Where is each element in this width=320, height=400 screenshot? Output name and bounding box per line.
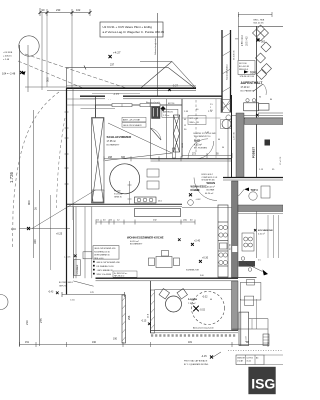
stair small ticked box [263, 334, 269, 346]
wedge tip box [173, 148, 176, 158]
bad door diagonal [151, 128, 162, 140]
svg-text:44.20 m²: 44.20 m² [205, 192, 214, 195]
shaft crossed rect [174, 115, 180, 152]
note box with TOP arrow [238, 61, 257, 75]
svg-text:( -0.15: ( -0.15 [64, 257, 71, 259]
interior vertical wall x95.5 [95, 105, 97, 118]
dim line y228.5 [20, 228, 71, 230]
svg-text:-0.02: -0.02 [200, 309, 206, 312]
svg-text:EST 56: EST 56 [168, 103, 174, 105]
white gap in party wall [232, 246, 237, 252]
svg-text:BRÜ + HUB: BRÜ + HUB [254, 19, 265, 22]
svg-text:2.5: 2.5 [210, 104, 213, 106]
bad south wall [151, 158, 232, 160]
svg-text:90: 90 [259, 97, 261, 99]
marker +0.27 [168, 84, 178, 92]
roof right slope [168, 67, 196, 89]
abstell box [162, 109, 178, 117]
hob circles upper [219, 225, 228, 237]
sideboard long box [135, 209, 181, 217]
schlafzimmer boxed notes [122, 117, 146, 127]
marker 362 [257, 39, 266, 44]
top dimension tick strokes [39, 11, 92, 14]
neighbor dark table [239, 261, 256, 267]
svg-text:BY 1:1 QUADRATE IN RING: BY 1:1 QUADRATE IN RING [184, 363, 209, 366]
hatched wall top right [238, 205, 283, 212]
svg-text:-0.43: -0.43 [48, 292, 54, 294]
dashed roof diagonal 1 [25, 54, 126, 88]
shower square [221, 100, 231, 113]
svg-text:KÜCHE: KÜCHE [191, 189, 200, 192]
label WOHN top3 [191, 186, 214, 196]
svg-text:80: 80 [270, 99, 272, 101]
svg-text:1.47 / 90: 1.47 / 90 [234, 131, 236, 140]
svg-text:BO+GIO 85: BO+GIO 85 [239, 66, 249, 68]
left dim vertical x50.7 [50, 195, 52, 270]
bad door arc [196, 141, 214, 159]
left dim vertical x19.5 [19, 45, 21, 346]
podest top thin line [232, 115, 284, 117]
inner top line [81, 108, 116, 110]
diamond 1 large [253, 25, 269, 41]
svg-text:17 x 17.6: 17 x 17.6 [280, 156, 282, 165]
survey circle top-left [19, 36, 39, 56]
svg-text:237: 237 [110, 64, 115, 67]
convector box with circles [135, 197, 163, 203]
marker -1.15 [108, 92, 119, 100]
diamond 2 [261, 42, 271, 52]
stair upper boxes [240, 283, 261, 301]
svg-text:C 16: C 16 [70, 300, 75, 302]
marker near podest [256, 114, 259, 117]
svg-text:306: 306 [121, 156, 126, 159]
svg-text:-4.15: -4.15 [201, 355, 207, 358]
arrow leader [246, 264, 263, 272]
svg-text:ABSTELLR.: ABSTELLR. [163, 111, 174, 114]
stair tall box [239, 312, 249, 345]
hob circles lower [219, 253, 228, 265]
neighbor east line [267, 215, 269, 258]
svg-text:BO.PAR: BO.PAR [207, 189, 215, 192]
label WOHN small [207, 181, 216, 191]
svg-text:PROTOTAL CAP BOKAL M: PROTOTAL CAP BOKAL M [184, 360, 208, 363]
top dimension numbers [42, 8, 81, 12]
title note box [100, 22, 164, 37]
svg-text:-0.27: -0.27 [172, 84, 178, 88]
room label AUFENTHALT [241, 81, 263, 92]
neighbor hob [244, 237, 253, 247]
step line below top wall [92, 93, 140, 95]
svg-text:GELS OW WOHNZI-U30: GELS OW WOHNZI-U30 [97, 262, 121, 264]
window rect 2 [140, 104, 160, 107]
svg-text:4.10 m²: 4.10 m² [258, 233, 265, 236]
terrace strip lines top-left of rooms [67, 98, 96, 100]
svg-text:2.5: 2.5 [258, 260, 261, 262]
svg-text:60 / 90: 60 / 90 [229, 243, 231, 250]
svg-text:14/44: 14/44 [182, 142, 184, 148]
dashed partition [195, 100, 197, 152]
svg-text:GELS OW SCHLAFZI: GELS OW SCHLAFZI [123, 124, 142, 127]
markers in wohn room [191, 240, 209, 263]
marker -0.48 [11, 227, 63, 236]
wedge line upper [108, 123, 172, 153]
loggia table circle [166, 296, 182, 312]
room label SCHLAFZIMMER [107, 135, 133, 147]
loggia top edge [155, 289, 233, 291]
svg-text:500: 500 [46, 77, 50, 82]
svg-text:104 = -2.48: 104 = -2.48 [2, 72, 16, 76]
svg-text:STB-DE UK 2.60: STB-DE UK 2.60 [240, 76, 254, 78]
hatched party wall vertical [232, 181, 239, 278]
svg-text:KS DIHEIB-CG 30: KS DIHEIB-CG 30 [94, 251, 109, 253]
interior wall band north of bad [80, 95, 222, 97]
room label WOHN-ESSZIMMER-KUECHE [127, 235, 164, 245]
loggia chair 2 rotated [177, 289, 187, 299]
svg-text:44.20 m²: 44.20 m² [130, 240, 139, 243]
wfl note box [113, 271, 137, 278]
svg-text:WM + TR: WM + TR [190, 122, 200, 124]
svg-text:A : WFL 102 m²: A : WFL 102 m² [114, 272, 127, 275]
svg-text:17.20 m²: 17.20 m² [241, 86, 250, 89]
scatter dims bottom kitchen [200, 275, 212, 301]
svg-text:275: 275 [39, 318, 43, 323]
svg-text:a.Z Verres.Lag.Cr Wagerber C.: a.Z Verres.Lag.Cr Wagerber C. Punkte 380… [103, 30, 165, 34]
svg-text:NO 1910: NO 1910 [239, 63, 247, 65]
svg-text:U2 PLN: U2 PLN [247, 358, 254, 360]
podest dark top edge [238, 117, 283, 119]
svg-text:-4.02: -4.02 [196, 199, 202, 201]
svg-text:SWL 1.3a FB30: SWL 1.3a FB30 [97, 274, 112, 276]
svg-text:90: 90 [222, 147, 224, 149]
wall schlafzimmer south [67, 203, 183, 205]
svg-text:ABST. +UK LT.STAT: ABST. +UK LT.STAT [123, 119, 141, 122]
bad construction thin lines [215, 99, 217, 159]
thin line below hatched wall [238, 213, 283, 215]
podest inner line [256, 125, 258, 178]
svg-text:208: 208 [108, 156, 113, 159]
black diamond marker [160, 106, 165, 111]
svg-text:RFB +0.00: RFB +0.00 [94, 258, 103, 260]
svg-text:SCHIEBE-TÜR: SCHIEBE-TÜR [186, 269, 199, 272]
dark box in podest room [265, 140, 271, 146]
bottom dim line y344.5 [20, 342, 269, 347]
svg-text:NDL 41 KS: NDL 41 KS [254, 23, 265, 25]
svg-text:1.726: 1.726 [9, 171, 14, 183]
compass star marker [194, 306, 199, 311]
svg-text:TOP 1: TOP 1 [250, 73, 257, 75]
rotated closet box [74, 260, 80, 276]
wall pair hatch ticks [222, 33, 231, 108]
line under table [258, 112, 283, 114]
svg-text:Loggia: Loggia [188, 297, 197, 301]
podest vertical concrete band [236, 113, 244, 177]
level marker 104 [2, 71, 26, 76]
bad west wall [181, 99, 183, 157]
podest horizontal concrete band [245, 118, 284, 125]
svg-text:233: 233 [56, 8, 61, 12]
svg-text:(24): (24) [183, 220, 187, 222]
svg-text:12: 12 [184, 125, 186, 127]
svg-text:+0.25: +0.25 [56, 233, 63, 236]
svg-text:GEWI 35: GEWI 35 [114, 197, 122, 199]
wall below podest [223, 177, 283, 179]
svg-text:46: 46 [210, 299, 212, 301]
svg-text:4.85 m²: 4.85 m² [194, 143, 202, 146]
svg-text:KS DIHEIB-CG 30: KS DIHEIB-CG 30 [97, 266, 115, 268]
svg-text:RFB 405.9: RFB 405.9 [239, 69, 248, 71]
chair circle bottom right wing [249, 192, 257, 200]
left dim vertical x28 [27, 45, 29, 92]
nightstand 2 [147, 181, 159, 189]
loggia east wall band [232, 281, 239, 330]
svg-text:2.58 / 4.10: 2.58 / 4.10 [242, 34, 244, 46]
neighbor inner wall vertical [256, 212, 258, 259]
label stack kitchen left [93, 261, 121, 276]
south wall wohnzimmer [96, 277, 239, 279]
marker +0.43 terrace [48, 292, 94, 302]
top right eave line [238, 25, 283, 27]
right wing wall vertical [256, 26, 258, 177]
svg-text:1.04: 1.04 [11, 228, 16, 231]
dim line under bad [182, 153, 232, 158]
svg-text:BO.PARKETT: BO.PARKETT [130, 243, 143, 246]
small cabinet [261, 186, 270, 198]
arrow marker bottom [263, 270, 269, 276]
left dim vertical x39.5 [39, 190, 41, 346]
svg-text:296: 296 [127, 315, 131, 320]
svg-text:GEF 2%: GEF 2% [59, 285, 66, 287]
left exterior wall [66, 88, 68, 295]
svg-text:= 406.15: = 406.15 [3, 56, 12, 58]
svg-text:3.60: 3.60 [200, 275, 204, 277]
svg-text:Sonnenkollektor: Sonnenkollektor [226, 64, 229, 80]
dotted boundary bottom right [228, 350, 283, 352]
svg-text:18.5 / 4.2: 18.5 / 4.2 [247, 36, 249, 46]
svg-text:+WPL EBENE 20: +WPL EBENE 20 [97, 270, 114, 272]
svg-text:216: 216 [25, 320, 29, 325]
svg-text:NFL 88.4 m²: NFL 88.4 m² [114, 275, 125, 278]
basin small circle [226, 115, 231, 120]
svg-text:BO.TERR 405.8: BO.TERR 405.8 [59, 282, 73, 284]
terrace door diagonal [73, 281, 93, 286]
marker near label [178, 238, 181, 241]
terrace edge line y294.5 [62, 292, 125, 297]
svg-text:190: 190 [113, 338, 118, 341]
vertical line x157 roof [157, 13, 159, 96]
svg-text:SCHRANK: SCHRANK [76, 264, 79, 274]
ISG logo [248, 367, 275, 394]
svg-text:PODEST: PODEST [252, 147, 256, 158]
dining table group [149, 251, 180, 268]
svg-text:+0.30: +0.30 [202, 257, 209, 260]
window rect 1 [112, 104, 132, 107]
schlafzimmer top wall with windows [96, 104, 183, 106]
svg-text:-0.15: -0.15 [141, 321, 147, 323]
svg-text:+OK FFB: +OK FFB [3, 52, 13, 54]
left wall tick marks [65, 112, 69, 184]
loggia west wall band [151, 281, 155, 333]
loggia railing dash strip [151, 334, 237, 337]
podest small dims [259, 169, 275, 171]
marker -0.15 [141, 321, 151, 326]
svg-text:DKHTI-EBENE 30: DKHTI-EBENE 30 [94, 255, 109, 257]
svg-text:WOHN-/ESSZIMMER-KÜCHE: WOHN-/ESSZIMMER-KÜCHE [127, 235, 164, 239]
corridor east verticals [84, 207, 86, 279]
mini title table [236, 355, 283, 365]
h-line to corner y87 [25, 86, 67, 88]
svg-text:PIL 302: PIL 302 [114, 191, 120, 193]
marker +4.27 [109, 51, 121, 59]
bad west inner vertical [150, 99, 152, 159]
dim line y222 [96, 220, 195, 225]
svg-text:102: 102 [76, 8, 81, 12]
aufenthalt door diagonal [253, 84, 263, 92]
bad partition vertical [166, 99, 168, 159]
svg-text:B.ROL.HOLZ: B.ROL.HOLZ [202, 174, 214, 176]
spec note lines [202, 174, 218, 182]
wall corner vertical [95, 96, 97, 105]
bad small dims [184, 109, 213, 134]
svg-text:WT + TR: WT + TR [190, 118, 199, 120]
left dim vertical x33.5 [33, 110, 35, 258]
loggia chair 1 rotated [159, 289, 169, 299]
svg-text:190: 190 [92, 341, 97, 344]
dim line schlafzimmer [104, 156, 181, 161]
svg-text:ISG: ISG [251, 376, 275, 392]
wedge line lower [105, 153, 172, 161]
bad extra tiny dims [184, 119, 224, 149]
bed circle [110, 164, 140, 194]
dashed circle whirlpool [192, 292, 225, 325]
grid line vertical x72 [71, 13, 73, 89]
svg-text:151: 151 [25, 341, 30, 344]
scatter dims right wall [234, 50, 236, 60]
basin shelf [221, 120, 232, 129]
svg-text:GELS OW WOHNZI-U30: GELS OW WOHNZI-U30 [94, 248, 115, 250]
door arc to wohn [194, 178, 217, 201]
roof ridge horizontal [140, 61, 172, 63]
svg-text:Absturzsicherung h=100: Absturzsicherung h=100 [193, 327, 213, 330]
chairs above table [246, 99, 256, 102]
svg-text:BO.PARKETT: BO.PARKETT [107, 143, 121, 146]
door gap in wall [105, 95, 123, 100]
svg-text:SCHLAFZIMMER: SCHLAFZIMMER [107, 135, 133, 139]
nightstand 1 [147, 169, 159, 177]
right exterior wall pair [221, 30, 223, 112]
diamond 4 [262, 64, 272, 74]
svg-text:36 2.96 36: 36 2.96 36 [234, 50, 236, 60]
neighbor east line 2 [273, 215, 275, 258]
svg-text:+4.27: +4.27 [113, 51, 121, 55]
leader diagonal to wall [32, 190, 96, 229]
corridor wall vertical pair [72, 207, 74, 279]
top right dim line [235, 12, 272, 60]
bad dim text column [168, 103, 213, 112]
svg-text:TOP 3: TOP 3 [251, 189, 259, 192]
roof outline horizontal [67, 66, 169, 68]
aufenthalt door arc [263, 84, 266, 95]
stair rail verticals [251, 319, 253, 329]
diamond 5 [257, 70, 267, 80]
wardrobe hourglass band [92, 118, 105, 204]
svg-text:17.35 m²: 17.35 m² [107, 140, 117, 143]
grid line vertical x42 [41, 13, 43, 91]
corridor marker [64, 255, 77, 259]
floor edge line [182, 207, 232, 209]
bad door arc [151, 128, 162, 140]
svg-text:GSEDGR: GSEDGR [237, 358, 245, 360]
svg-text:05.22: 05.22 [247, 361, 252, 363]
svg-text:1: 1 [210, 107, 211, 109]
svg-text:BO. PARKETT: BO. PARKETT [241, 89, 255, 92]
bad east wall [231, 95, 233, 177]
svg-text:340: 340 [33, 239, 37, 244]
main top exterior wall [67, 85, 197, 87]
svg-text:W.GLATTE 405: W.GLATTE 405 [202, 179, 215, 182]
svg-text:U2 KU31 + KU5 Valere PEnt + Er: U2 KU31 + KU5 Valere PEnt + Erdbg [103, 25, 153, 29]
svg-text:BO. FLIESEN: BO. FLIESEN [194, 148, 207, 150]
wall segment below neighbor [232, 277, 257, 279]
svg-text:181: 181 [188, 341, 193, 344]
marker +0.00 [189, 190, 201, 201]
svg-text:1:50 AT: 1:50 AT [237, 360, 244, 363]
left inner wall line [72, 88, 74, 220]
note -4.15 [184, 352, 221, 366]
neighbor counter [242, 233, 254, 251]
wc dark fixture [152, 107, 161, 119]
svg-text:BAD: BAD [194, 139, 200, 143]
neighbor east line 3 [278, 215, 280, 258]
stair landing lines [249, 318, 268, 320]
note box kitchen left [93, 246, 119, 260]
svg-text:4 x 18: 4 x 18 [246, 336, 248, 342]
scatter tiny marks aufenthalt [259, 97, 272, 102]
table right wing [244, 103, 269, 111]
svg-text:2.5: 2.5 [210, 110, 213, 112]
top dimension line [40, 8, 90, 16]
svg-text:A3: A3 [256, 357, 258, 360]
dashed arc inner [57, 118, 66, 208]
left edge arc [0, 295, 8, 310]
small circle fixture [188, 200, 194, 206]
h-line to corner y90.5 [47, 90, 67, 92]
room label BAD [194, 139, 207, 150]
svg-text:+2.40: +2.40 [194, 240, 201, 243]
svg-text:60: 60 [218, 139, 220, 141]
left texts OK RFB [3, 52, 13, 61]
stair connector vertical [240, 299, 242, 312]
svg-text:= 2.48: = 2.48 [3, 59, 10, 61]
svg-text:COMP-WOD 1:1.8: COMP-WOD 1:1.8 [202, 177, 218, 179]
vertical dim chain [128, 181, 132, 204]
TOP 3 marker [239, 188, 259, 197]
bed notes [114, 191, 122, 199]
small corridor box [83, 252, 92, 259]
bad east inner line [227, 120, 229, 177]
tick on roof line [84, 66, 86, 70]
svg-text:45: 45 [184, 119, 186, 121]
neighbor kitchen labels [254, 229, 273, 236]
dashed roof diagonal 2 [18, 61, 84, 89]
svg-text:Schneefangleiste: Schneefangleiste [154, 37, 157, 55]
label Loggia [188, 297, 197, 305]
kitchen counter column [218, 205, 228, 277]
roof left vertical stub [66, 67, 68, 88]
svg-text:AUFENTHALT: AUFENTHALT [241, 81, 263, 85]
svg-text:N x B 180: N x B 180 [114, 194, 122, 196]
terrace west wall band [122, 295, 126, 343]
dashed arc roof projection [13, 92, 60, 248]
